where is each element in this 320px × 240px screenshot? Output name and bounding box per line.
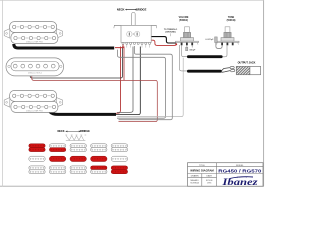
svg-text:BRIDGE: BRIDGE	[136, 7, 147, 11]
svg-text:OUTPUT JACK: OUTPUT JACK	[238, 61, 256, 64]
svg-text:MASARU: MASARU	[191, 179, 200, 182]
svg-text:0.022µF: 0.022µF	[205, 39, 214, 41]
svg-text:DiMarzio PAF PRO: DiMarzio PAF PRO	[26, 110, 44, 113]
svg-text:KUSHIDA: KUSHIDA	[190, 182, 199, 185]
svg-text:DiMarzio SDS-1: DiMarzio SDS-1	[28, 73, 43, 75]
svg-text:(GROUND): (GROUND)	[165, 32, 176, 34]
svg-text:DATE: DATE	[207, 175, 213, 178]
svg-text:WIRING DIAGRAM: WIRING DIAGRAM	[190, 169, 214, 173]
svg-text:BRIDGE: BRIDGE	[80, 130, 90, 133]
svg-text:DiMarzio PAF PRO: DiMarzio PAF PRO	[26, 41, 44, 44]
svg-text:TITLE: TITLE	[199, 165, 205, 167]
svg-text:NOV.06: NOV.06	[206, 180, 213, 182]
svg-text:(500KΩ): (500KΩ)	[227, 20, 236, 22]
svg-text:NECK: NECK	[117, 7, 125, 11]
svg-text:1996: 1996	[207, 183, 211, 185]
svg-text:NECK: NECK	[57, 130, 64, 133]
svg-text:330pF: 330pF	[189, 49, 196, 51]
svg-text:VOLUME: VOLUME	[179, 17, 189, 19]
svg-text:MODEL: MODEL	[236, 165, 244, 167]
svg-text:RG450 / RG570: RG450 / RG570	[218, 168, 262, 173]
svg-text:DRAWN: DRAWN	[191, 175, 199, 178]
svg-text:(500KΩ): (500KΩ)	[179, 20, 188, 22]
svg-text:TONE: TONE	[228, 17, 235, 19]
